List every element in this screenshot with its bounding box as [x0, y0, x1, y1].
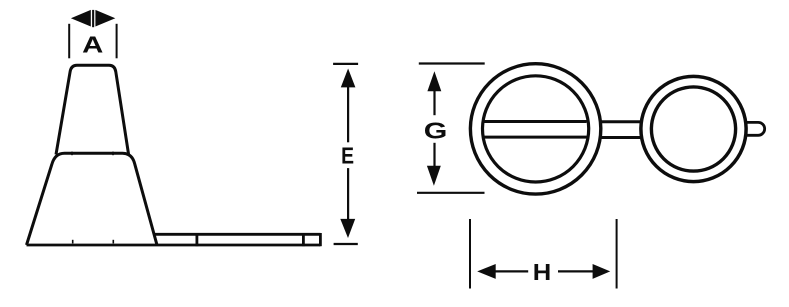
svg-text:A: A	[82, 32, 103, 58]
svg-text:G: G	[424, 117, 448, 143]
svg-text:H: H	[533, 259, 552, 285]
svg-text:E: E	[341, 142, 354, 168]
